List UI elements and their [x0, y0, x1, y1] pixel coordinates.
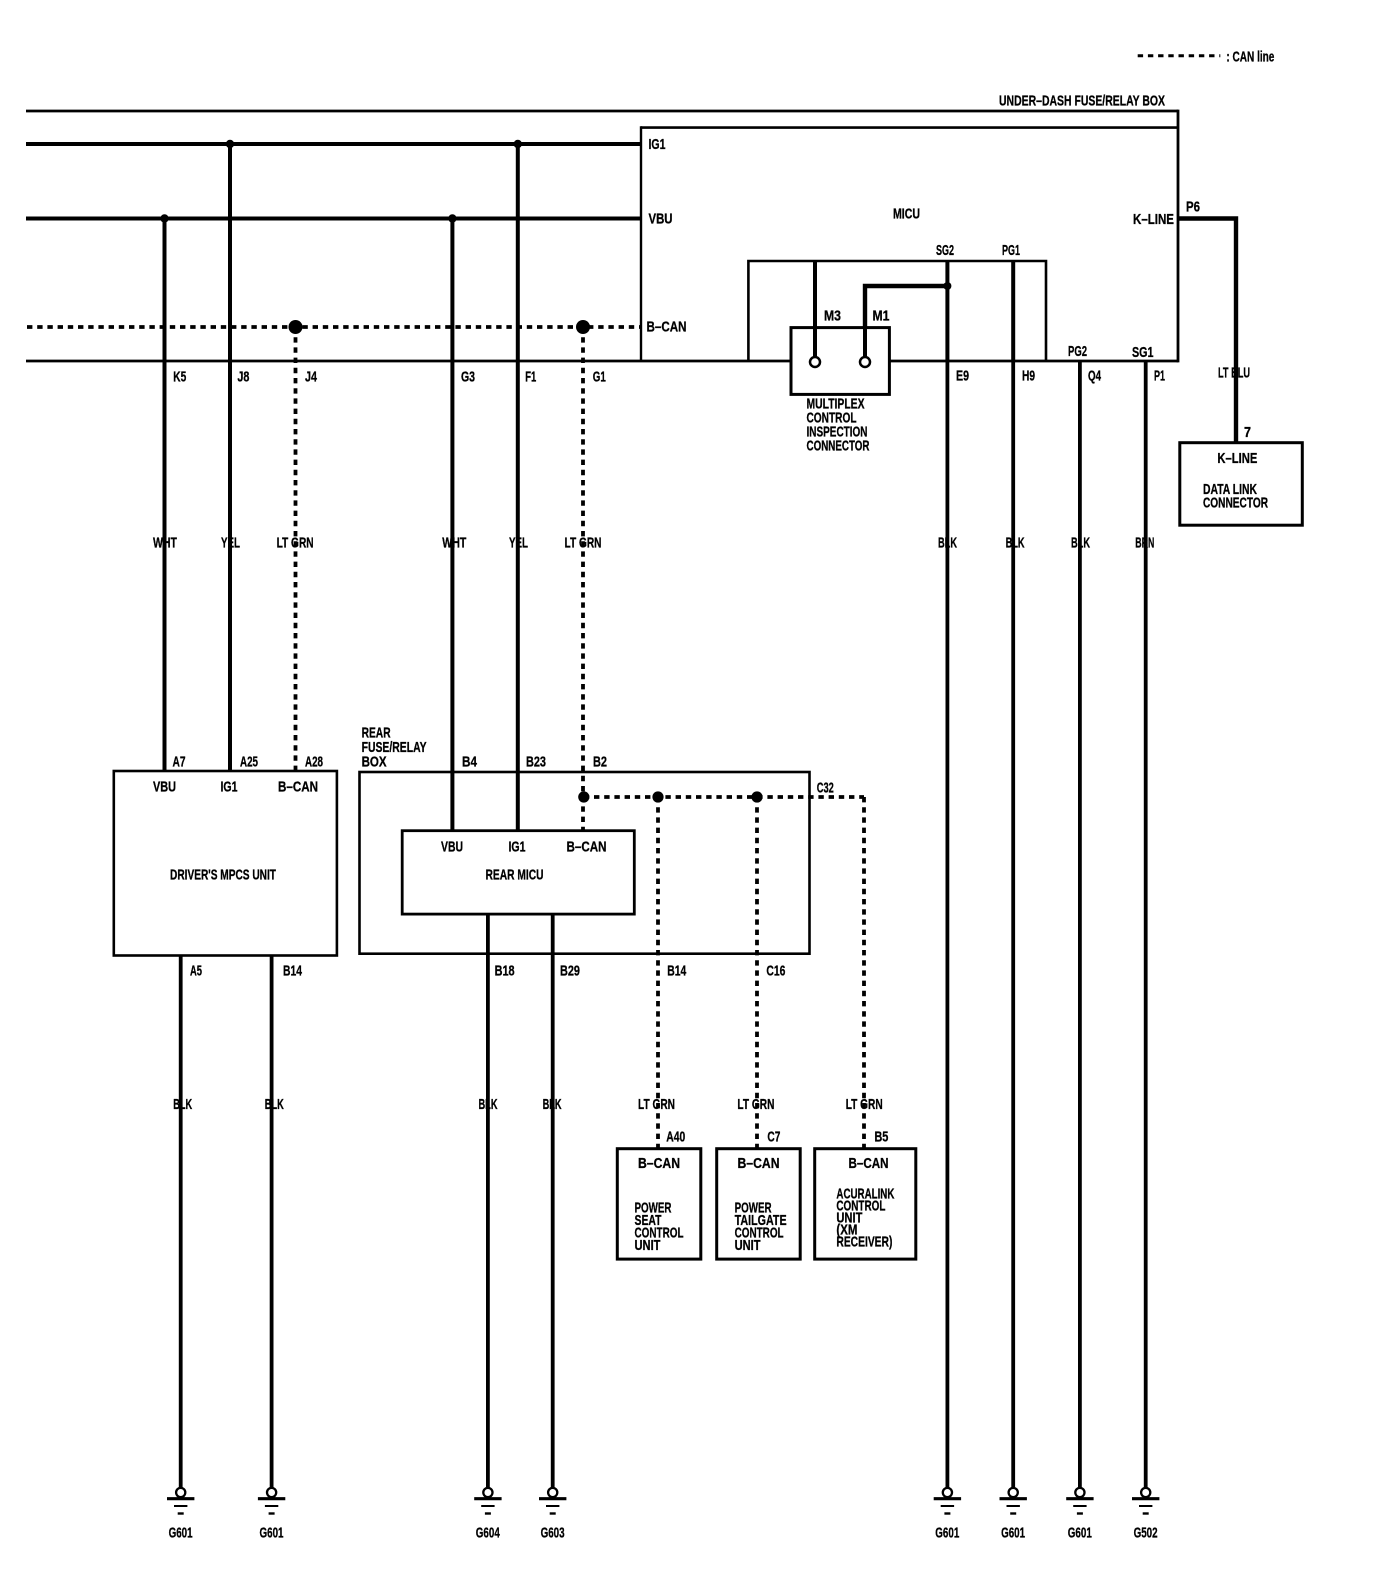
svg-text:BRN: BRN — [1135, 536, 1154, 552]
node junction VBU/K5 — [160, 214, 168, 222]
svg-text:A7: A7 — [173, 755, 186, 771]
svg-text:WHT: WHT — [153, 536, 177, 552]
svg-text:BLK: BLK — [173, 1097, 192, 1113]
label POWER SEAT CONTROL UNIT — [635, 1201, 684, 1255]
svg-text:G3: G3 — [461, 370, 475, 386]
svg-text:P6: P6 — [1186, 200, 1200, 216]
svg-text:VBU: VBU — [153, 780, 176, 796]
svg-text:M3: M3 — [824, 309, 841, 325]
svg-text:E9: E9 — [956, 369, 969, 385]
svg-text:P1: P1 — [1154, 369, 1165, 385]
svg-text:B14: B14 — [283, 964, 302, 980]
box MICU left border — [640, 126, 642, 361]
svg-text:VBU: VBU — [649, 212, 673, 228]
wire G3 WHT from VBU bus to rear MICU — [450, 219, 454, 831]
svg-text:B–CAN: B–CAN — [849, 1156, 889, 1172]
svg-text:BLK: BLK — [265, 1097, 284, 1113]
svg-text:RECEIVER): RECEIVER) — [836, 1235, 892, 1251]
ground G604 (B18) — [474, 1488, 501, 1542]
svg-text:K–LINE: K–LINE — [1217, 451, 1257, 467]
svg-text:SG1: SG1 — [1132, 345, 1154, 361]
svg-text:G1: G1 — [593, 370, 606, 386]
svg-text:BLK: BLK — [543, 1097, 562, 1113]
wire F1 YEL from IG1 bus to rear MICU — [516, 144, 520, 831]
wire J8 YEL from IG1 bus to driver's MPCS unit — [228, 144, 232, 771]
ground G601 (A5) — [167, 1488, 194, 1542]
node junction M1/SG2 — [943, 282, 951, 290]
label ACURALINK CONTROL UNIT (XM RECEIVER) — [836, 1187, 894, 1251]
box under-dash fuse/relay box bottom border left segment — [26, 360, 791, 363]
wire B14 BLK to ground — [270, 956, 274, 1489]
unit driver's MPCS unit box — [114, 771, 337, 956]
svg-text:B–CAN: B–CAN — [738, 1156, 780, 1172]
svg-text:PG2: PG2 — [1068, 344, 1087, 360]
node junction B2 branch — [578, 791, 589, 802]
node junction B-CAN/G1 — [576, 320, 590, 334]
svg-text:B18: B18 — [495, 964, 515, 980]
svg-text:UNIT: UNIT — [635, 1238, 661, 1254]
wire B14 LT GRN dashed to power seat control unit — [656, 797, 660, 1149]
ground G603 (B29) — [539, 1488, 566, 1542]
svg-text:MICU: MICU — [893, 207, 920, 223]
svg-text:J8: J8 — [237, 370, 249, 386]
label POWER TAILGATE CONTROL UNIT — [735, 1201, 787, 1255]
svg-text:BLK: BLK — [938, 536, 957, 552]
svg-text:B23: B23 — [526, 755, 546, 771]
wire PG1 internal — [1011, 261, 1015, 361]
svg-text:LT GRN: LT GRN — [277, 536, 314, 552]
svg-text:B–CAN: B–CAN — [638, 1156, 680, 1172]
wire H9 BLK to ground — [1011, 361, 1015, 1488]
svg-text:A40: A40 — [666, 1130, 685, 1146]
svg-text:WHT: WHT — [442, 536, 466, 552]
svg-text:LT GRN: LT GRN — [737, 1097, 774, 1113]
wire B29 BLK to ground — [551, 914, 555, 1488]
ground G601 (Q4) — [1066, 1488, 1093, 1542]
ground G601 (H9) — [1000, 1488, 1027, 1542]
unit power seat control unit box — [617, 1149, 701, 1259]
node junction IG1/J8 — [226, 140, 234, 148]
wire M3 stub inside connector — [813, 328, 817, 357]
svg-text:F1: F1 — [525, 370, 536, 386]
svg-text:IG1: IG1 — [649, 137, 666, 153]
legend CAN line dashed sample — [1138, 54, 1221, 57]
wire VBU bus — [26, 217, 641, 221]
ground G502 (P1) — [1132, 1488, 1159, 1542]
svg-text:A28: A28 — [305, 755, 323, 771]
svg-text:G601: G601 — [1001, 1526, 1025, 1542]
svg-text:G601: G601 — [1068, 1526, 1092, 1542]
svg-text:G601: G601 — [260, 1526, 284, 1542]
svg-text:CONNECTOR: CONNECTOR — [1203, 496, 1268, 512]
wire Q4 BLK to ground — [1078, 361, 1082, 1488]
svg-text:IG1: IG1 — [509, 840, 526, 856]
svg-text:C16: C16 — [766, 964, 785, 980]
wire K-LINE LT BLU from P6 to data link connector — [1178, 219, 1236, 443]
wire C16 LT GRN dashed to power tailgate control unit — [755, 797, 759, 1149]
label REAR FUSE/RELAY BOX — [362, 726, 427, 771]
svg-text:B2: B2 — [593, 755, 607, 771]
ground G601 (B14 driver) — [258, 1488, 285, 1542]
svg-text:BOX: BOX — [362, 755, 387, 771]
svg-text:DRIVER'S MPCS UNIT: DRIVER'S MPCS UNIT — [170, 868, 276, 884]
node junction B-CAN/J4 — [289, 320, 303, 334]
svg-text:LT GRN: LT GRN — [638, 1097, 675, 1113]
svg-text:BLK: BLK — [479, 1097, 498, 1113]
svg-text:K–LINE: K–LINE — [1133, 212, 1174, 228]
wire B18 BLK to ground — [486, 914, 490, 1488]
wire P1 BRN to ground — [1144, 361, 1148, 1488]
svg-text:UNDER–DASH FUSE/RELAY BOX: UNDER–DASH FUSE/RELAY BOX — [999, 94, 1165, 110]
connector data link connector box — [1180, 443, 1303, 526]
svg-text:SG2: SG2 — [936, 243, 954, 259]
svg-text:LT GRN: LT GRN — [565, 536, 602, 552]
svg-text:A5: A5 — [190, 964, 202, 980]
svg-text:J4: J4 — [305, 370, 317, 386]
svg-text:BLK: BLK — [1071, 536, 1090, 552]
wire IG1 bus — [26, 142, 641, 146]
svg-text:B–CAN: B–CAN — [647, 320, 687, 336]
wire G1 LT GRN dashed from B-CAN bus to rear MICU — [581, 327, 585, 831]
svg-text:G603: G603 — [541, 1526, 565, 1542]
svg-text:B14: B14 — [667, 964, 686, 980]
wire M3 internal — [813, 261, 817, 357]
wire SG2 internal — [945, 261, 949, 361]
svg-text:: CAN line: : CAN line — [1226, 49, 1274, 65]
svg-text:Q4: Q4 — [1088, 369, 1101, 385]
svg-text:C32: C32 — [817, 781, 834, 797]
svg-text:LT GRN: LT GRN — [846, 1097, 883, 1113]
wire B-CAN bus dashed — [27, 325, 641, 329]
svg-text:VBU: VBU — [441, 840, 463, 856]
svg-text:K5: K5 — [173, 370, 186, 386]
connector multiplex control inspection connector box — [791, 328, 889, 395]
svg-text:YEL: YEL — [509, 536, 528, 552]
wire E9 BLK to ground — [946, 361, 950, 1488]
svg-text:IG1: IG1 — [221, 780, 238, 796]
label MULTIPLEX CONTROL INSPECTION CONNECTOR — [807, 397, 870, 455]
svg-text:B5: B5 — [874, 1130, 888, 1146]
wire A5 BLK to ground — [179, 956, 183, 1489]
svg-text:7: 7 — [1244, 425, 1251, 441]
box under-dash fuse/relay box top border — [26, 110, 1178, 113]
svg-text:B4: B4 — [462, 755, 477, 771]
unit power tailgate control unit box — [717, 1149, 801, 1259]
svg-text:LT BLU: LT BLU — [1218, 366, 1250, 382]
node junction B14 branch — [652, 791, 663, 802]
box MICU top border — [641, 126, 1178, 129]
pin M3 terminal circle — [810, 357, 820, 367]
svg-text:UNIT: UNIT — [735, 1238, 761, 1254]
unit rear MICU box — [402, 831, 634, 914]
pin M1 terminal circle — [860, 357, 870, 367]
svg-text:G601: G601 — [935, 1526, 959, 1542]
svg-text:BLK: BLK — [1006, 536, 1025, 552]
label DATA LINK CONNECTOR — [1203, 482, 1268, 512]
ground G601 (E9) — [934, 1488, 961, 1542]
svg-text:REAR MICU: REAR MICU — [486, 868, 544, 884]
wire M1 stub inside connector — [863, 328, 867, 357]
box under-dash fuse/relay box bottom border right segment — [889, 360, 1178, 363]
wire J4 LT GRN dashed from B-CAN bus to driver's MPCS unit — [294, 327, 298, 771]
box rear fuse/relay box — [360, 772, 810, 954]
svg-text:B–CAN: B–CAN — [278, 780, 318, 796]
svg-text:YEL: YEL — [221, 536, 240, 552]
unit acuralink control unit box — [815, 1149, 916, 1259]
svg-text:G601: G601 — [169, 1526, 193, 1542]
box MICU internal block (SG2/PG1) — [748, 261, 1046, 361]
node junction VBU/G3 — [448, 214, 456, 222]
box under-dash fuse/relay box right border — [1177, 110, 1180, 363]
node junction IG1/F1 — [514, 140, 522, 148]
svg-text:G604: G604 — [476, 1526, 500, 1542]
wire C32 LT GRN dashed to acuralink control unit — [862, 797, 866, 1149]
svg-text:M1: M1 — [873, 309, 890, 325]
svg-text:CONNECTOR: CONNECTOR — [807, 439, 870, 455]
wire B-CAN branch dashed horizontal — [584, 795, 864, 799]
node junction C16 branch — [751, 791, 762, 802]
svg-text:PG1: PG1 — [1002, 243, 1020, 259]
svg-text:A25: A25 — [240, 755, 258, 771]
wire K5 WHT from VBU bus to driver's MPCS unit — [163, 219, 167, 772]
svg-text:B–CAN: B–CAN — [567, 840, 607, 856]
wire M1 to SG2 — [865, 286, 947, 357]
svg-text:C7: C7 — [767, 1130, 780, 1146]
svg-text:B29: B29 — [560, 964, 580, 980]
svg-text:G502: G502 — [1134, 1526, 1158, 1542]
svg-text:H9: H9 — [1022, 369, 1035, 385]
